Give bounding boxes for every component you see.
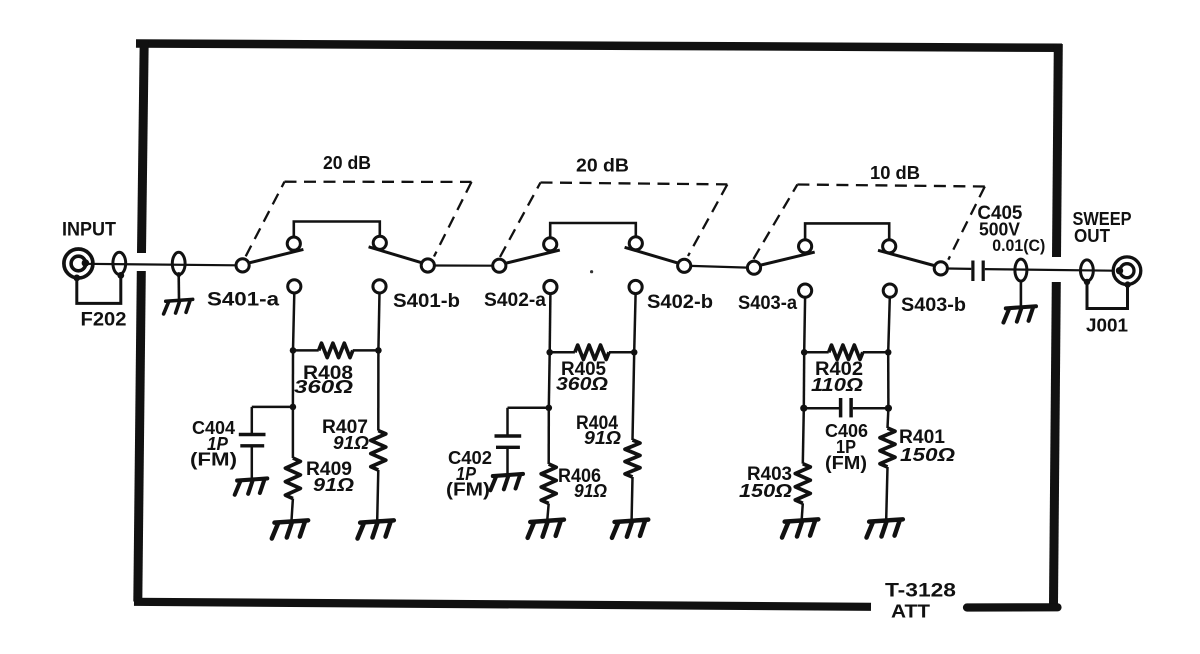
feedthrough bead at input wall (172, 252, 185, 274)
switch S403 wiper arm b (878, 250, 936, 266)
wire R406 to ground (547, 504, 548, 520)
svg-text:91Ω: 91Ω (574, 480, 608, 501)
wire C405 through wall to J001 (985, 269, 1114, 271)
svg-text:ATT: ATT (891, 601, 931, 622)
switch S403 upper contact a (799, 240, 812, 253)
wire C402 to ground (506, 447, 509, 474)
wire node down to C406 tap right (887, 352, 890, 408)
svg-text:F202: F202 (81, 310, 127, 331)
wire R409 to ground (292, 499, 293, 521)
junction R402 right (885, 349, 892, 356)
connector F202 center pin dot (82, 259, 90, 267)
dashed gang link S402 left (500, 183, 541, 258)
switch S403 lower contact b (883, 284, 896, 297)
ground below R401 (865, 519, 903, 537)
wire S401-b contact down to node R408 right (378, 292, 379, 350)
switch S403 bypass link (805, 223, 889, 240)
wire node down to R407 (377, 350, 380, 430)
switch S402 common-a contact (493, 259, 506, 272)
resistor R407 body (371, 431, 386, 470)
svg-text:20 dB: 20 dB (323, 152, 371, 173)
ground at C402 (489, 474, 523, 490)
junction R405 left (546, 349, 553, 356)
svg-text:S402-a: S402-a (484, 290, 546, 311)
wire S401-b to S402-a (434, 264, 492, 266)
switch S402 lower contact a (544, 280, 557, 293)
ground below R406 (527, 520, 565, 538)
resistor R404 body (625, 440, 640, 477)
capacitor C404 plates (239, 433, 266, 436)
switch S402 wiper arm b (625, 247, 680, 263)
connector J001 center pin dot (1116, 267, 1123, 274)
svg-text:150Ω: 150Ω (739, 480, 793, 501)
svg-text:360Ω: 360Ω (556, 373, 609, 394)
svg-text:91Ω: 91Ω (313, 474, 355, 495)
dashed gang link S401 top (285, 181, 472, 183)
junction C406 left (800, 405, 807, 412)
ground below R409 (271, 520, 309, 538)
junction C406 right (885, 405, 892, 412)
junction bead bottom J001 (1084, 279, 1090, 285)
switch S401 upper contact b (373, 236, 386, 249)
junction R402 left (801, 349, 808, 356)
resistor R408 body (319, 343, 353, 357)
wire tap to C402 (508, 407, 549, 410)
resistor R405 body (575, 345, 609, 359)
connector J001 outer shell (1113, 257, 1141, 285)
switch S403 lower contact a (799, 284, 812, 297)
svg-text:T-3128: T-3128 (885, 579, 956, 601)
wire S403-b contact down to node R402 right (888, 297, 890, 352)
switch S403 common-b contact (934, 262, 947, 275)
wire node down to C402 tap (548, 352, 551, 408)
wire node down to C406 tap left (803, 352, 806, 408)
wire from C406 (853, 407, 889, 410)
dashed gang link S402 right (688, 184, 727, 256)
wire down to C402 (506, 408, 509, 435)
svg-text:91Ω: 91Ω (584, 427, 622, 448)
svg-text:110Ω: 110Ω (811, 374, 864, 395)
wire from R408 (353, 349, 379, 352)
wire from R402 (863, 351, 889, 354)
junction J001 shell (1124, 281, 1130, 287)
junction R408 left (290, 347, 297, 354)
dashed gang link S402 top (541, 183, 728, 185)
svg-text:360Ω: 360Ω (294, 376, 354, 397)
wire R401 to ground (886, 467, 887, 520)
wire down to R401 (886, 408, 889, 428)
switch S402 wiper arm a (505, 250, 560, 263)
resistor R409 body (285, 458, 300, 499)
feedthrough bead at F202 (113, 252, 126, 274)
capacitor C406 plates (839, 398, 843, 417)
switch S401 bypass link (294, 222, 380, 238)
capacitor C402 plates (495, 434, 522, 437)
junction C402 tap (546, 405, 553, 412)
junction bead bottom (117, 272, 124, 279)
switch S402 lower contact b (629, 280, 642, 293)
scan speck (590, 270, 593, 273)
ground below R407 (356, 520, 394, 538)
resistor R402 body (829, 345, 863, 359)
connector F202 inner conductor (71, 256, 86, 271)
F202 shell ground strap (77, 276, 121, 303)
wire R403 to ground (802, 503, 803, 519)
switch S401 upper contact a (287, 237, 300, 250)
switch S403 common-a contact (747, 261, 760, 274)
svg-text:20 dB: 20 dB (576, 154, 629, 175)
wire S402-b contact down to node R405 right (634, 294, 635, 353)
wire S402-b to S403-a (691, 266, 748, 268)
svg-text:0.01(C): 0.01(C) (992, 236, 1045, 255)
ground at output bead (1002, 306, 1036, 322)
switch S401 wiper arm b (369, 247, 423, 263)
svg-text:(FM): (FM) (446, 478, 490, 499)
ground below R404 (611, 520, 649, 538)
switch S402 bypass link (550, 223, 636, 238)
junction R408 right (375, 347, 382, 354)
svg-text:INPUT: INPUT (62, 219, 116, 241)
ground at input bead (163, 299, 194, 314)
wire S401-a contact down to node R408 left (293, 293, 294, 350)
resistor R406 body (541, 464, 556, 503)
svg-text:S402-b: S402-b (647, 292, 713, 313)
wire node down to R404 (633, 352, 635, 440)
wire S403-a contact down to node R402 left (803, 297, 806, 352)
dashed gang link S403 left (754, 185, 798, 259)
wire down to C404 (251, 407, 254, 433)
switch S401 common-b contact (421, 259, 434, 272)
svg-text:OUT: OUT (1074, 225, 1111, 246)
junction bead2 bottom (176, 272, 181, 277)
junction C404 tap (290, 404, 297, 411)
svg-text:(FM): (FM) (190, 449, 237, 470)
switch S401 wiper arm a (248, 249, 304, 263)
feedthrough bead at J001 (1081, 260, 1094, 281)
switch S401 common-a contact (236, 259, 249, 272)
wire down to R403 (803, 408, 804, 464)
resistor R401 body (880, 428, 895, 467)
svg-text:S403-b: S403-b (901, 295, 966, 316)
wire to R402 (804, 351, 829, 354)
junction F202 shell (73, 275, 80, 282)
switch S403 upper contact b (883, 240, 896, 253)
wire C404 to ground (251, 446, 254, 479)
wire to R408 (293, 349, 319, 352)
wire input to S401-a common (84, 264, 236, 266)
wire down to R409 (292, 407, 295, 458)
dashed gang link S403 right (948, 187, 985, 260)
switch S402 common-b contact (678, 259, 691, 272)
wire S403-b to C405 (947, 267, 971, 270)
connector J001 inner conductor (1120, 264, 1134, 278)
dashed gang link S401 right (434, 182, 472, 257)
svg-text:S403-a: S403-a (738, 293, 797, 314)
wire node down to C404 tap (292, 350, 295, 407)
switch S401 lower contact b (373, 280, 386, 293)
svg-text:91Ω: 91Ω (333, 432, 370, 453)
switch S402 upper contact b (629, 237, 642, 250)
wire tap to C404 (252, 406, 293, 409)
svg-text:J001: J001 (1086, 315, 1128, 336)
connector F202 outer shell (64, 249, 93, 278)
feedthrough bead at output wall (1015, 259, 1027, 281)
wire to R405 (550, 351, 575, 354)
wire R407 to ground (377, 470, 378, 521)
wire to C406 (804, 407, 840, 410)
svg-text:S401-a: S401-a (207, 289, 279, 310)
switch S401 lower contact a (288, 280, 301, 293)
dashed gang link S401 left (246, 182, 285, 257)
junction R405 right (631, 349, 638, 356)
J001 shell ground strap (1087, 282, 1128, 309)
wire from R405 (609, 351, 634, 354)
switch S403 wiper arm a (759, 252, 815, 265)
switch S402 upper contact a (544, 238, 557, 251)
svg-text:S401-b: S401-b (393, 291, 460, 312)
ground below R403 (781, 519, 819, 537)
ground at C404 (234, 478, 268, 494)
wire bead2 to ground (177, 276, 180, 300)
T-3128 module enclosure frame (136, 44, 1062, 48)
wire R404 to ground (630, 477, 633, 520)
svg-text:(FM): (FM) (825, 452, 867, 473)
wire S402-a contact down to node R405 left (548, 294, 551, 353)
dashed gang link S403 top (797, 185, 984, 187)
capacitor C405 plates (971, 261, 974, 282)
svg-text:150Ω: 150Ω (900, 444, 956, 465)
svg-text:10 dB: 10 dB (870, 162, 920, 183)
resistor R403 body (795, 464, 810, 504)
wire down to R406 (547, 408, 550, 464)
wire bead to ground (1020, 281, 1023, 306)
